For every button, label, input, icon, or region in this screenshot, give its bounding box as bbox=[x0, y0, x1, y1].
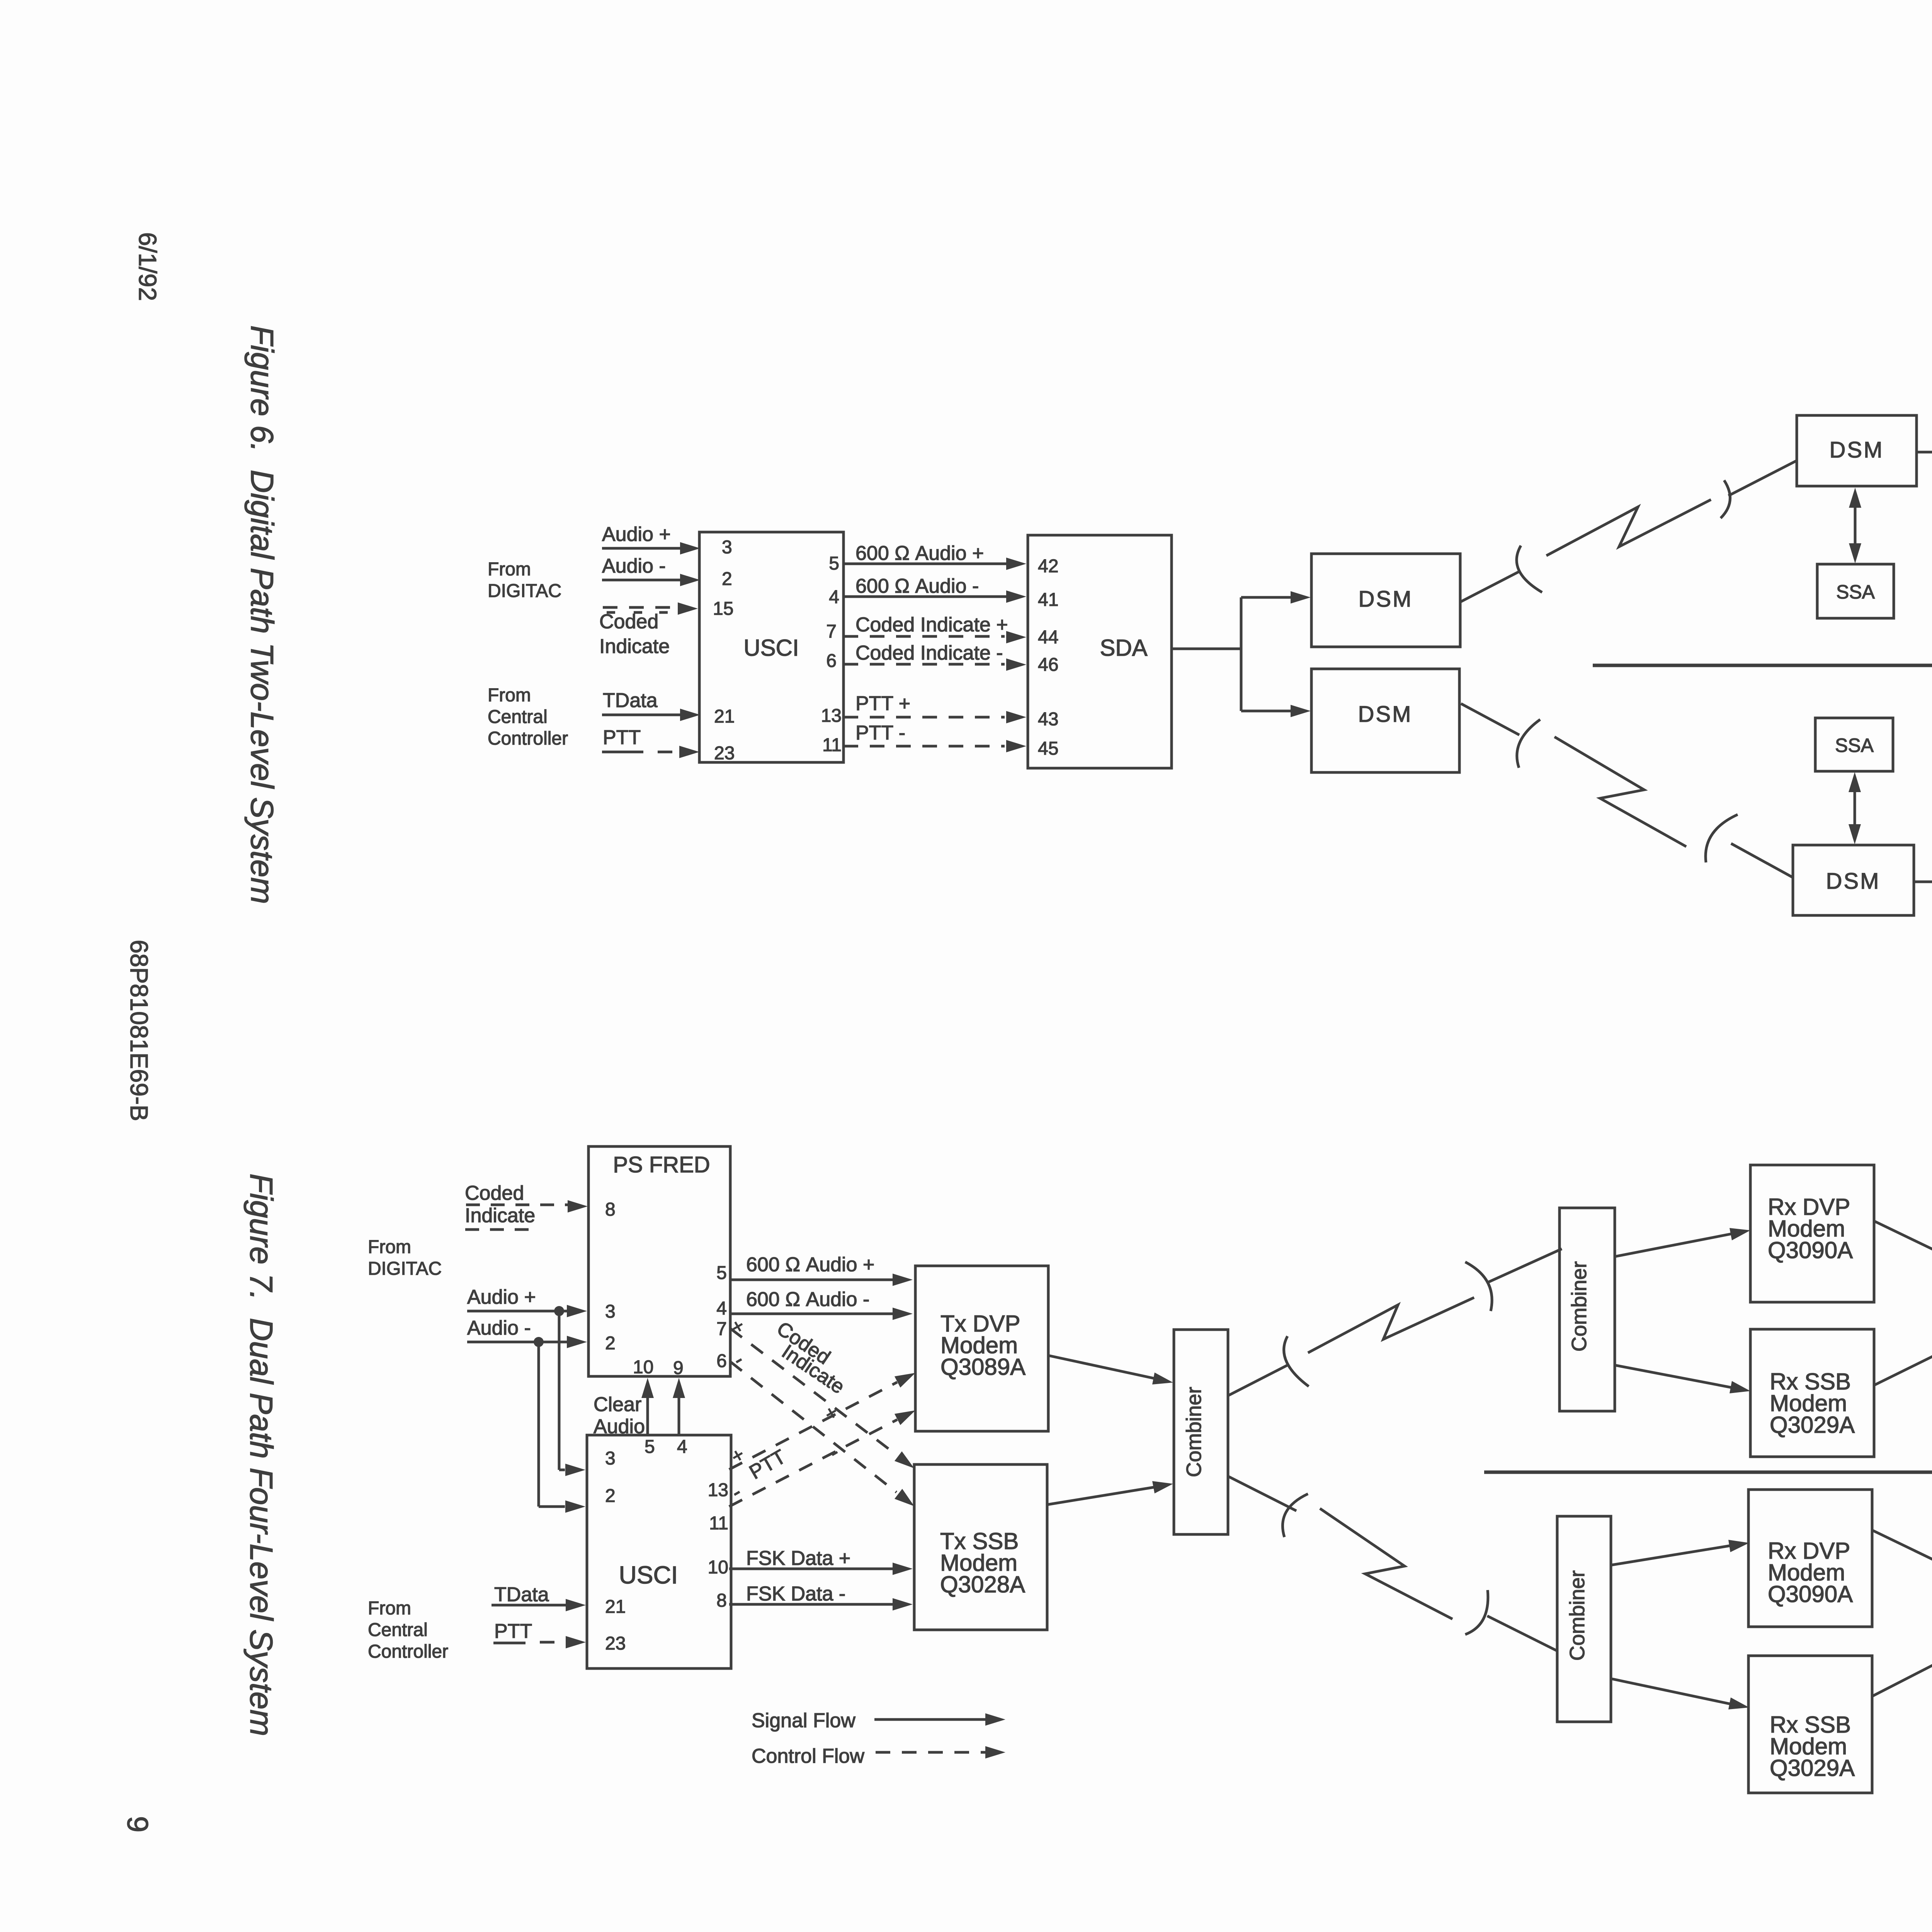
svg-text:13: 13 bbox=[708, 1480, 728, 1500]
fig6 radio link to site 1 (line, break arcs, zigzag) bbox=[1460, 572, 1519, 602]
svg-text:Coded: Coded bbox=[465, 1182, 524, 1204]
fig6 site2 double arrow SSA-DSM bbox=[1854, 790, 1856, 827]
svg-text:23: 23 bbox=[714, 743, 735, 764]
svg-text:Audio -: Audio - bbox=[467, 1317, 531, 1339]
svg-text:41: 41 bbox=[1038, 590, 1058, 610]
fig7 site1 block Rx SSB Modem Q3029A bbox=[1750, 1329, 1874, 1457]
svg-text:2: 2 bbox=[605, 1486, 616, 1506]
svg-text:21: 21 bbox=[605, 1597, 626, 1617]
svg-text:USCI: USCI bbox=[743, 635, 799, 661]
fig7 site2 wire Rx DVP to RDM bbox=[1872, 1530, 1932, 1580]
fig7 site2 block Rx SSB Modem Q3029A bbox=[1748, 1656, 1872, 1793]
svg-text:2: 2 bbox=[605, 1333, 616, 1354]
svg-text:USCI: USCI bbox=[619, 1561, 678, 1589]
fig6 radio link to site 2 (line, break arcs, zigzag) bbox=[1461, 704, 1519, 735]
svg-text:FSK Data +: FSK Data + bbox=[746, 1547, 850, 1570]
svg-text:4: 4 bbox=[829, 587, 839, 607]
fig7 site1 wire Combiner to Rx SSB bbox=[1615, 1365, 1732, 1388]
svg-text:11: 11 bbox=[709, 1513, 728, 1534]
fig7 site2 wire Combiner to Rx SSB bbox=[1612, 1679, 1731, 1704]
fig6 wire SDA output trunk bbox=[1172, 648, 1241, 650]
svg-text:From: From bbox=[488, 685, 531, 706]
svg-text:600 Ω Audio -: 600 Ω Audio - bbox=[746, 1288, 869, 1311]
svg-text:DSM: DSM bbox=[1826, 869, 1881, 894]
svg-text:23: 23 bbox=[605, 1633, 626, 1654]
svg-text:44: 44 bbox=[1038, 627, 1058, 648]
svg-text:Coded: Coded bbox=[599, 611, 658, 633]
svg-text:SDA: SDA bbox=[1100, 635, 1147, 661]
svg-text:3: 3 bbox=[605, 1448, 616, 1469]
svg-text:DSM: DSM bbox=[1358, 702, 1413, 727]
svg-text:Controller: Controller bbox=[488, 728, 568, 749]
svg-text:Coded Indicate -: Coded Indicate - bbox=[855, 642, 1003, 664]
svg-text:PTT -: PTT - bbox=[855, 722, 905, 744]
svg-text:4: 4 bbox=[716, 1298, 727, 1319]
fig7 site2 block Rx DVP Modem Q3090A bbox=[1748, 1490, 1872, 1627]
fig7 block Tx SSB Modem Q3028A bbox=[914, 1464, 1047, 1630]
svg-text:42: 42 bbox=[1038, 556, 1058, 577]
fig7 site1 wire Rx SSB to RDM bbox=[1874, 1333, 1932, 1385]
svg-text:7: 7 bbox=[826, 621, 837, 642]
svg-text:TData: TData bbox=[494, 1583, 549, 1606]
fig7 site1 block Rx DVP Modem Q3090A bbox=[1750, 1165, 1874, 1302]
fig6 wire branch to DSM 1 bbox=[1241, 596, 1291, 599]
fig6 signal overbar dashes above Coded bbox=[607, 611, 615, 614]
svg-text:PTT +: PTT + bbox=[855, 692, 910, 715]
fig7 site2 wire Combiner to Rx DVP bbox=[1612, 1546, 1731, 1565]
svg-text:Central: Central bbox=[488, 707, 548, 727]
svg-text:68P81081E69-B: 68P81081E69-B bbox=[125, 940, 153, 1121]
fig6 site2 arrow DSM to Tx bbox=[1914, 881, 1932, 883]
svg-text:Q3090A: Q3090A bbox=[1768, 1581, 1853, 1607]
svg-text:TData: TData bbox=[603, 689, 658, 712]
svg-text:SSA: SSA bbox=[1836, 581, 1875, 603]
svg-text:DIGITAC: DIGITAC bbox=[368, 1259, 442, 1279]
fig7 control wire Coded Indicate - (dashed, PS FRED 6 to Tx SSB) bbox=[730, 1362, 896, 1492]
fig7 dashed underline under Indicate bbox=[465, 1228, 534, 1231]
svg-text:Combiner: Combiner bbox=[1568, 1261, 1591, 1352]
svg-text:Controller: Controller bbox=[368, 1641, 448, 1662]
svg-text:9: 9 bbox=[673, 1358, 684, 1378]
svg-text:Q3028A: Q3028A bbox=[940, 1571, 1025, 1597]
fig6 site1 block DSM bbox=[1797, 415, 1917, 486]
fig6 site1 double arrow DSM-SSA bbox=[1854, 505, 1857, 546]
svg-text:FSK Data -: FSK Data - bbox=[746, 1583, 845, 1605]
svg-text:10: 10 bbox=[633, 1357, 653, 1378]
fig7 block PS FRED bbox=[588, 1146, 730, 1376]
fig7 site1 wire Rx DVP to RDM bbox=[1874, 1221, 1932, 1272]
svg-text:Figure 6. Digital Path Two-Le: Figure 6. Digital Path Two-Level System bbox=[244, 325, 280, 904]
svg-text:Central: Central bbox=[368, 1620, 428, 1640]
svg-text:6: 6 bbox=[716, 1351, 727, 1371]
fig7 site1 block Combiner bbox=[1560, 1208, 1615, 1411]
fig7 block Tx DVP Modem Q3089A bbox=[915, 1266, 1048, 1431]
fig6 block DSM lower (prime central) bbox=[1311, 669, 1459, 772]
fig7 wire Coded Indicate (dashed) into PS FRED pin 8 bbox=[466, 1204, 568, 1206]
svg-text:From: From bbox=[368, 1237, 411, 1257]
svg-text:Audio +: Audio + bbox=[467, 1286, 536, 1308]
svg-text:From: From bbox=[488, 559, 531, 580]
svg-text:600 Ω Audio +: 600 Ω Audio + bbox=[746, 1253, 874, 1276]
svg-text:Q3029A: Q3029A bbox=[1770, 1755, 1855, 1781]
fig6 block USCI bbox=[699, 532, 844, 762]
fig6 separator line between sites bbox=[1593, 664, 1932, 667]
svg-text:5: 5 bbox=[829, 553, 839, 574]
svg-text:10: 10 bbox=[708, 1557, 728, 1578]
fig7 site1 wire Combiner to Rx DVP bbox=[1615, 1234, 1732, 1257]
fig7 site2 wire Rx SSB to RDM bbox=[1872, 1643, 1932, 1696]
svg-text:3: 3 bbox=[722, 537, 732, 558]
fig7 arrow USCI 5 up to PS FRED 10 bbox=[646, 1397, 649, 1435]
fig6 site1 arrow DSM to Tx bbox=[1917, 451, 1932, 454]
svg-text:Q3029A: Q3029A bbox=[1770, 1412, 1855, 1438]
svg-text:Q3089A: Q3089A bbox=[940, 1354, 1026, 1380]
svg-text:4: 4 bbox=[677, 1437, 687, 1457]
svg-text:SSA: SSA bbox=[1835, 735, 1874, 756]
fig7 arrow USCI 4 up to PS FRED 9 bbox=[678, 1397, 680, 1435]
fig6 site1 block SSA bbox=[1817, 564, 1894, 618]
fig7 radio link to site 1 bbox=[1228, 1365, 1287, 1396]
svg-text:PTT: PTT bbox=[603, 726, 641, 749]
svg-text:600 Ω Audio -: 600 Ω Audio - bbox=[855, 575, 979, 597]
svg-text:Indicate: Indicate bbox=[465, 1204, 535, 1227]
svg-text:9: 9 bbox=[121, 1816, 154, 1832]
svg-text:13: 13 bbox=[821, 706, 842, 726]
svg-text:21: 21 bbox=[714, 706, 735, 727]
svg-text:6/1/92: 6/1/92 bbox=[134, 232, 162, 301]
fig6 wire branch to DSM 2 bbox=[1241, 710, 1291, 713]
svg-text:PS FRED: PS FRED bbox=[613, 1152, 710, 1177]
svg-text:From: From bbox=[368, 1598, 411, 1619]
svg-text:3: 3 bbox=[605, 1301, 616, 1322]
fig6 site2 block DSM bbox=[1793, 845, 1914, 915]
svg-text:5: 5 bbox=[645, 1437, 655, 1457]
svg-text:Combiner: Combiner bbox=[1182, 1387, 1206, 1477]
svg-text:11: 11 bbox=[822, 735, 842, 755]
svg-text:Audio -: Audio - bbox=[602, 555, 666, 577]
svg-text:7: 7 bbox=[716, 1319, 727, 1339]
fig7 control wire PTT + (dashed, USCI 13 to Tx DVP) bbox=[729, 1382, 897, 1469]
fig7 wire Tx SSB to Combiner bbox=[1047, 1487, 1154, 1505]
fig7 control wire Coded Indicate + (dashed, PS FRED 7 to Tx SSB) bbox=[730, 1328, 896, 1455]
svg-text:8: 8 bbox=[716, 1590, 727, 1611]
fig7 control wire PTT - (dashed, USCI 11 to Tx DVP) bbox=[729, 1420, 897, 1507]
svg-text:Combiner: Combiner bbox=[1566, 1570, 1589, 1661]
fig6 wire Coded Indicate (dashed) into USCI pin 15 bbox=[603, 606, 678, 609]
svg-text:46: 46 bbox=[1038, 655, 1058, 675]
svg-text:Control Flow: Control Flow bbox=[752, 1745, 864, 1767]
svg-text:Coded Indicate +: Coded Indicate + bbox=[855, 614, 1008, 636]
svg-text:Q3090A: Q3090A bbox=[1768, 1237, 1853, 1263]
svg-text:600 Ω Audio +: 600 Ω Audio + bbox=[855, 542, 984, 565]
svg-text:2: 2 bbox=[722, 569, 732, 589]
fig7 radio link to site 2 bbox=[1228, 1476, 1296, 1511]
fig7 site2 block Combiner bbox=[1557, 1516, 1611, 1722]
svg-text:15: 15 bbox=[713, 599, 733, 619]
svg-text:Indicate: Indicate bbox=[599, 635, 670, 658]
fig7 block Combiner (central) bbox=[1174, 1330, 1228, 1534]
fig7 separator line between sites bbox=[1484, 1471, 1932, 1474]
svg-text:6: 6 bbox=[826, 651, 837, 671]
svg-text:DIGITAC: DIGITAC bbox=[488, 581, 561, 601]
svg-text:DSM: DSM bbox=[1359, 587, 1413, 612]
fig7 block USCI bbox=[587, 1435, 731, 1668]
svg-text:8: 8 bbox=[605, 1199, 616, 1220]
fig6 site2 block SSA bbox=[1815, 718, 1893, 771]
fig6 block DSM upper (prime central) bbox=[1311, 554, 1460, 647]
svg-text:43: 43 bbox=[1038, 709, 1058, 730]
svg-text:45: 45 bbox=[1038, 738, 1058, 759]
svg-text:5: 5 bbox=[716, 1263, 727, 1283]
svg-text:Audio +: Audio + bbox=[602, 523, 671, 546]
svg-text:Signal Flow: Signal Flow bbox=[752, 1709, 855, 1732]
svg-text:Clear: Clear bbox=[594, 1393, 641, 1416]
svg-text:Figure 7. Dual Path Four-Leve: Figure 7. Dual Path Four-Level System bbox=[243, 1173, 279, 1736]
svg-text:DSM: DSM bbox=[1830, 437, 1884, 463]
svg-text:PTT: PTT bbox=[494, 1620, 532, 1643]
fig6 block SDA bbox=[1028, 535, 1172, 768]
fig7 wire Tx DVP to Combiner bbox=[1048, 1355, 1154, 1378]
